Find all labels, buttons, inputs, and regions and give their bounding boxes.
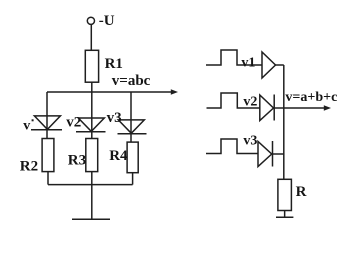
diode D1 bbox=[262, 52, 276, 78]
wire bus bbox=[283, 65, 285, 179]
svg-text:v=abc: v=abc bbox=[112, 73, 151, 89]
svg-text:R2: R2 bbox=[20, 159, 38, 175]
resistor R4 bbox=[127, 142, 138, 173]
diode v1 bbox=[31, 116, 62, 130]
pulse source v1 bbox=[206, 50, 262, 65]
wire bbox=[274, 107, 284, 109]
wire bbox=[273, 153, 284, 155]
svg-text:R1: R1 bbox=[105, 56, 123, 72]
wire bbox=[284, 211, 286, 218]
diode D2 bbox=[260, 95, 274, 121]
ground bbox=[72, 218, 110, 220]
wire bbox=[91, 172, 93, 220]
svg-text:v3: v3 bbox=[243, 133, 257, 148]
pulse source v2 bbox=[207, 93, 260, 108]
resistor R2 bbox=[42, 139, 54, 172]
wire bbox=[90, 24, 92, 50]
wire bbox=[91, 82, 93, 92]
wire bbox=[48, 184, 133, 186]
wire bbox=[47, 172, 49, 185]
svg-text:v: v bbox=[23, 119, 30, 134]
terminal -U bbox=[87, 17, 94, 24]
label v1 bbox=[23, 119, 33, 134]
resistor R3 bbox=[86, 139, 98, 172]
resistor R bbox=[278, 179, 292, 210]
diode D3 bbox=[258, 141, 273, 167]
svg-text:R3: R3 bbox=[68, 153, 86, 169]
ground bbox=[276, 216, 293, 218]
wire bbox=[91, 92, 93, 139]
wire bbox=[276, 64, 284, 66]
svg-text:R4: R4 bbox=[109, 148, 128, 164]
svg-text:v2: v2 bbox=[66, 115, 81, 131]
wire output bus with arrow bbox=[47, 91, 172, 93]
svg-text:v3: v3 bbox=[107, 110, 122, 126]
svg-text:v1: v1 bbox=[241, 55, 255, 70]
diode v2 bbox=[76, 118, 106, 132]
wire bbox=[130, 92, 132, 142]
pulse source v3 bbox=[206, 139, 258, 154]
wire bbox=[132, 173, 134, 185]
diode v3 bbox=[118, 120, 147, 134]
svg-text:-U: -U bbox=[99, 13, 115, 29]
output arrow bbox=[284, 107, 325, 109]
svg-text:v=a+b+c: v=a+b+c bbox=[285, 90, 337, 105]
svg-text:R: R bbox=[296, 184, 307, 200]
svg-text:v2: v2 bbox=[243, 95, 257, 110]
wire bbox=[46, 92, 48, 139]
resistor R1 bbox=[85, 50, 98, 82]
